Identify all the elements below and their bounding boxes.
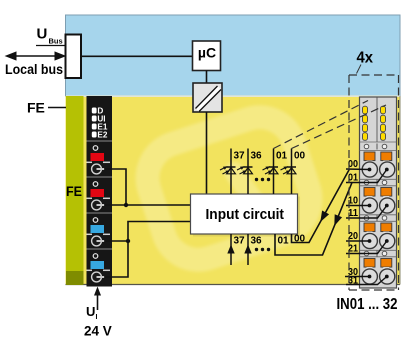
photodiode 00 — [281, 166, 297, 174]
wire 20 to screw — [346, 231, 371, 243]
photodiode 01 — [263, 166, 279, 174]
block LEDs column 1 — [363, 106, 368, 140]
supply arrow UI — [94, 287, 101, 311]
LED E2 — [92, 132, 97, 138]
module 4 test sockets — [364, 251, 387, 257]
terminal screw T2 — [92, 200, 105, 210]
dashed link to 00 — [292, 105, 387, 149]
input line 36 top — [248, 149, 262, 195]
svg-text:Local bus: Local bus — [5, 61, 63, 77]
keying tab blue 3 — [91, 225, 105, 233]
svg-text:36: 36 — [251, 236, 263, 247]
terminal block body — [360, 97, 397, 288]
module 3 screws — [362, 233, 395, 248]
module 3 test sockets — [364, 215, 387, 221]
label U I — [86, 304, 98, 321]
microcontroller U1 — [193, 41, 221, 71]
strip separators — [87, 141, 113, 249]
wire 10 to screw — [346, 196, 371, 208]
wire T1 — [104, 169, 126, 205]
keying tab red 2 — [91, 189, 105, 197]
block LEDs column 2 — [381, 106, 386, 140]
svg-text:24 V: 24 V — [84, 324, 112, 339]
LED UI — [92, 116, 97, 122]
ellipsis bottom — [255, 248, 270, 251]
wire 11 to screw — [346, 204, 389, 219]
svg-text:01: 01 — [276, 151, 288, 162]
watermark (light yellow part over yellow region) — [138, 108, 320, 269]
FE lead wire — [48, 107, 66, 109]
signal arrow on 01 diagonal — [334, 214, 342, 226]
wire T4 — [104, 222, 191, 278]
photodiode 36 — [237, 166, 253, 174]
svg-text:Input circuit: Input circuit — [206, 206, 285, 223]
block LED divider — [376, 97, 378, 142]
signal arrow on 00 diagonal — [320, 211, 329, 223]
galvanic isolator — [193, 83, 222, 112]
svg-text:I: I — [96, 314, 98, 321]
wire 31 to screw — [346, 275, 389, 287]
U Bus underline — [36, 45, 66, 47]
svg-text:01: 01 — [278, 236, 290, 247]
wire T3 — [104, 240, 128, 242]
svg-text:36: 36 — [251, 151, 263, 162]
svg-text:4x: 4x — [357, 50, 374, 67]
svg-text:00: 00 — [294, 234, 306, 245]
field line 36 bottom with arrow — [244, 234, 262, 265]
input line 37 top — [231, 149, 245, 195]
svg-text:µC: µC — [198, 45, 216, 61]
module 4 screws — [362, 269, 395, 284]
field line 00 bottom — [292, 169, 350, 245]
input circuit block — [191, 194, 301, 237]
label U Bus — [37, 25, 63, 45]
module 1 clamps — [364, 152, 392, 161]
LED D — [92, 108, 97, 114]
module area (yellow region) — [66, 96, 401, 285]
svg-text:Bus: Bus — [49, 37, 63, 46]
field line 37 bottom with arrow — [227, 234, 245, 265]
test point 4 — [93, 254, 98, 259]
keying tab red 1 — [91, 153, 105, 161]
test point 2 — [93, 182, 98, 187]
dashed link to 01 — [274, 101, 369, 149]
svg-text:37: 37 — [234, 236, 246, 247]
junction T3/T4 — [126, 239, 130, 243]
ellipsis top — [255, 178, 270, 181]
wire isolator to input circuit — [206, 112, 208, 194]
terminal screw T4 — [92, 272, 105, 282]
test point 1 — [93, 146, 98, 151]
junction T1/T2 — [124, 203, 128, 207]
block separators — [360, 142, 397, 257]
wire uC to isolator — [206, 71, 208, 84]
svg-text:U: U — [86, 304, 95, 319]
input line 01 top — [274, 149, 288, 195]
input line 00 top — [292, 149, 306, 195]
LED E1 — [92, 124, 97, 130]
FE rail dark tip — [66, 271, 84, 285]
wire 00 to screw — [346, 159, 371, 171]
svg-text:FE: FE — [27, 100, 45, 116]
wire bus to uC — [81, 55, 193, 57]
svg-text:E2: E2 — [97, 131, 107, 140]
wire T2 to input circuit — [104, 204, 191, 206]
wire 01 to screw — [346, 168, 389, 184]
module 2 screws — [362, 198, 395, 213]
svg-text:IN01 ... 32: IN01 ... 32 — [337, 296, 398, 313]
photodiode 37 — [220, 166, 236, 174]
bus connector — [66, 35, 82, 79]
wire 30 to screw — [345, 267, 371, 278]
module 4 clamps — [364, 259, 392, 268]
module 1 test sockets — [364, 144, 387, 150]
local bus arrow (double headed) — [7, 52, 65, 59]
svg-text:00: 00 — [294, 151, 306, 162]
module front (black strip) — [87, 96, 113, 287]
terminal screw T3 — [92, 236, 105, 246]
svg-text:37: 37 — [234, 151, 246, 162]
4x dashed expansion box — [349, 75, 399, 290]
local bus area (blue region) — [66, 15, 401, 96]
svg-text:U: U — [37, 25, 48, 42]
keying tab blue 4 — [91, 261, 105, 269]
FE rail (green strip) — [66, 96, 84, 285]
module 1 screws — [362, 162, 395, 177]
module 2 clamps — [364, 188, 392, 197]
test point 3 — [93, 218, 98, 223]
module 3 clamps — [364, 223, 392, 232]
svg-text:FE: FE — [66, 184, 82, 199]
wire 21 to screw — [346, 239, 389, 254]
field line 01 bottom — [275, 183, 352, 256]
module 2 test sockets — [364, 180, 387, 186]
terminal screw T1 — [92, 164, 105, 174]
label 4x — [357, 50, 374, 74]
